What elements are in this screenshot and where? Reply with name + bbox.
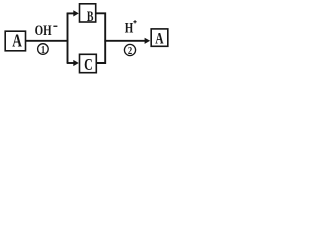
box B (product of step 1, top) — [80, 4, 96, 25]
split vertical wire — [67, 13, 69, 64]
box C (product of step 1, bottom) — [80, 54, 97, 74]
arrowhead into C — [73, 60, 79, 66]
wire C to right junction — [96, 41, 105, 63]
svg-text:OH: OH — [35, 21, 52, 38]
wire A to split point — [26, 40, 69, 42]
circled 1 — [38, 44, 49, 57]
svg-text:H: H — [125, 19, 134, 36]
superscript plus of H+ — [133, 20, 136, 23]
svg-text:1: 1 — [41, 44, 45, 56]
circled 2 — [124, 44, 135, 57]
svg-text:A: A — [155, 30, 163, 47]
arrowhead into right A — [145, 38, 151, 44]
superscript minus of OH- — [53, 26, 57, 27]
svg-text:B: B — [87, 8, 94, 25]
arrowhead into B — [73, 10, 79, 16]
box A (right, regenerated) — [151, 29, 168, 47]
svg-text:A: A — [12, 32, 22, 51]
wire to C — [67, 62, 75, 64]
wire junction to box A right — [104, 40, 145, 42]
wire B to right junction — [96, 13, 106, 41]
wire to B — [67, 12, 75, 14]
svg-text:C: C — [84, 56, 93, 75]
box A (left reactant) — [5, 31, 25, 51]
svg-text:2: 2 — [128, 45, 132, 57]
